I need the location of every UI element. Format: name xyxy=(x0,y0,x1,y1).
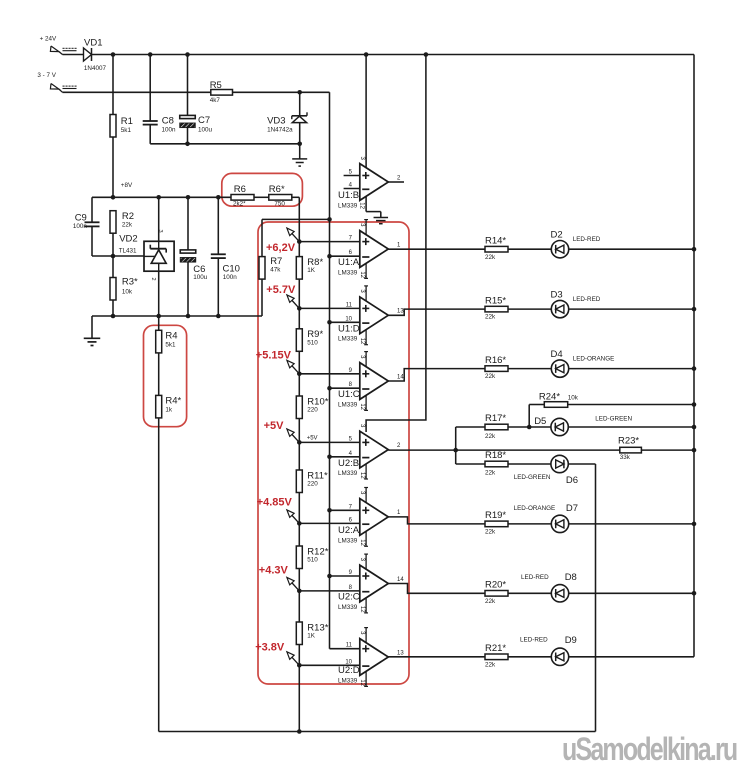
svg-text:+5V: +5V xyxy=(307,436,318,442)
svg-text:LED-RED: LED-RED xyxy=(521,574,549,581)
svg-text:U2:D: U2:D xyxy=(338,665,360,676)
svg-text:+3.8V: +3.8V xyxy=(255,642,285,654)
svg-text:750: 750 xyxy=(274,200,285,207)
svg-text:12: 12 xyxy=(359,606,365,613)
svg-text:13: 13 xyxy=(397,309,404,315)
svg-text:47k: 47k xyxy=(270,266,281,273)
svg-text:LED-ORANGE: LED-ORANGE xyxy=(514,505,556,512)
svg-text:LED-GREEN: LED-GREEN xyxy=(595,415,632,422)
svg-text:510: 510 xyxy=(307,339,318,346)
svg-text:+4.3V: +4.3V xyxy=(259,565,289,577)
svg-text:D3: D3 xyxy=(551,290,563,301)
svg-text:D8: D8 xyxy=(565,572,577,583)
svg-text:1k: 1k xyxy=(165,406,173,413)
svg-text:U1:A: U1:A xyxy=(338,257,360,268)
svg-text:C9: C9 xyxy=(75,212,87,223)
svg-text:VD1: VD1 xyxy=(84,37,102,48)
svg-text:+5.7V: +5.7V xyxy=(266,284,296,296)
svg-text:12: 12 xyxy=(359,403,365,410)
svg-text:22k: 22k xyxy=(485,373,496,380)
svg-text:LM339: LM339 xyxy=(338,677,358,684)
svg-text:D6: D6 xyxy=(566,475,578,486)
svg-text:22k: 22k xyxy=(485,470,496,477)
svg-text:11: 11 xyxy=(346,643,353,649)
svg-text:12: 12 xyxy=(359,202,365,209)
svg-text:1N4007: 1N4007 xyxy=(84,65,107,72)
svg-text:R18*: R18* xyxy=(485,450,506,461)
svg-text:2: 2 xyxy=(150,278,156,281)
svg-text:U1:B: U1:B xyxy=(338,190,359,201)
svg-text:R1: R1 xyxy=(121,116,133,127)
svg-text:100n: 100n xyxy=(73,223,88,230)
svg-text:22k: 22k xyxy=(122,222,133,229)
svg-text:LM339: LM339 xyxy=(338,336,358,343)
svg-text:R5: R5 xyxy=(210,80,222,91)
svg-text:22k: 22k xyxy=(485,314,496,321)
svg-text:12: 12 xyxy=(359,679,365,686)
svg-text:12: 12 xyxy=(359,472,365,479)
svg-text:R19*: R19* xyxy=(485,510,506,521)
svg-text:3 - 7 V: 3 - 7 V xyxy=(37,72,56,79)
svg-text:+6,2V: +6,2V xyxy=(266,242,296,254)
svg-text:R20*: R20* xyxy=(485,580,506,591)
svg-text:LED-ORANGE: LED-ORANGE xyxy=(573,356,615,363)
svg-text:R2: R2 xyxy=(122,211,134,222)
svg-text:11: 11 xyxy=(346,302,353,308)
svg-text:R6*: R6* xyxy=(269,184,285,195)
svg-text:12: 12 xyxy=(359,338,365,345)
svg-text:R3*: R3* xyxy=(122,276,138,287)
svg-text:U2:B: U2:B xyxy=(338,458,359,469)
svg-text:R6: R6 xyxy=(234,184,246,195)
svg-text:U1:C: U1:C xyxy=(338,389,360,400)
svg-text:10k: 10k xyxy=(122,289,133,296)
svg-text:LM339: LM339 xyxy=(338,401,358,408)
svg-text:LM339: LM339 xyxy=(338,604,358,611)
svg-text:22k: 22k xyxy=(485,529,496,536)
svg-text:3: 3 xyxy=(157,230,163,233)
svg-text:D7: D7 xyxy=(566,503,578,514)
svg-text:+4.85V: +4.85V xyxy=(257,496,293,508)
svg-text:220: 220 xyxy=(307,481,318,488)
svg-text:U2:C: U2:C xyxy=(338,592,360,603)
svg-text:14: 14 xyxy=(397,577,404,583)
svg-text:LM339: LM339 xyxy=(338,470,358,477)
svg-text:14: 14 xyxy=(397,374,404,380)
svg-text:5k1: 5k1 xyxy=(121,127,132,134)
svg-text:LM339: LM339 xyxy=(338,537,358,544)
svg-text:+8V: +8V xyxy=(121,182,133,189)
svg-text:LED-RED: LED-RED xyxy=(573,236,601,243)
svg-text:VD2: VD2 xyxy=(119,234,137,245)
svg-text:4k7: 4k7 xyxy=(210,97,221,104)
svg-text:100n: 100n xyxy=(162,126,177,133)
svg-text:D5: D5 xyxy=(534,416,546,427)
svg-text:LM339: LM339 xyxy=(338,269,358,276)
svg-text:uSamodelkina.ru: uSamodelkina.ru xyxy=(562,732,737,768)
svg-text:22k: 22k xyxy=(485,661,496,668)
svg-text:R15*: R15* xyxy=(485,295,506,306)
svg-text:R4: R4 xyxy=(165,331,177,342)
svg-text:510: 510 xyxy=(307,557,318,564)
svg-text:R16*: R16* xyxy=(485,355,506,366)
svg-text:LM339: LM339 xyxy=(338,202,358,209)
svg-text:R21*: R21* xyxy=(485,643,506,654)
svg-text:+5V: +5V xyxy=(264,420,285,432)
svg-text:C8: C8 xyxy=(162,116,174,127)
svg-text:LED-GREEN: LED-GREEN xyxy=(514,474,551,481)
svg-text:LED-RED: LED-RED xyxy=(520,637,548,644)
svg-text:R14*: R14* xyxy=(485,235,506,246)
svg-text:R23*: R23* xyxy=(618,436,639,447)
svg-text:D9: D9 xyxy=(565,635,577,646)
svg-text:1K: 1K xyxy=(307,633,316,640)
svg-text:R4*: R4* xyxy=(165,395,181,406)
svg-text:100u: 100u xyxy=(193,274,208,281)
svg-text:U1:D: U1:D xyxy=(338,324,360,335)
svg-text:10k: 10k xyxy=(568,394,579,401)
svg-text:12: 12 xyxy=(359,539,365,546)
svg-text:1N4742a: 1N4742a xyxy=(267,126,293,133)
svg-text:2k2*: 2k2* xyxy=(233,200,246,207)
svg-text:+5.15V: +5.15V xyxy=(256,349,292,361)
svg-text:100u: 100u xyxy=(198,126,213,133)
svg-text:10: 10 xyxy=(345,316,352,322)
svg-text:5k1: 5k1 xyxy=(165,341,176,348)
svg-text:U2:A: U2:A xyxy=(338,525,360,536)
svg-text:C10: C10 xyxy=(223,264,240,275)
svg-text:R24*: R24* xyxy=(539,391,560,402)
svg-text:22k: 22k xyxy=(485,254,496,261)
svg-text:C7: C7 xyxy=(198,115,210,126)
svg-text:TL431: TL431 xyxy=(119,247,137,254)
svg-text:R17*: R17* xyxy=(485,413,506,424)
svg-text:13: 13 xyxy=(397,650,404,656)
svg-text:VD3: VD3 xyxy=(267,116,285,127)
svg-text:D4: D4 xyxy=(551,349,563,360)
svg-text:100n: 100n xyxy=(223,274,238,281)
svg-text:1K: 1K xyxy=(307,267,316,274)
svg-text:D2: D2 xyxy=(551,230,563,241)
svg-text:220: 220 xyxy=(307,407,318,414)
svg-text:12: 12 xyxy=(359,271,365,278)
svg-text:+ 24V: + 24V xyxy=(40,36,57,43)
svg-text:LED-RED: LED-RED xyxy=(573,296,601,303)
svg-text:22k: 22k xyxy=(485,598,496,605)
svg-text:22k: 22k xyxy=(485,433,496,440)
svg-text:33k: 33k xyxy=(620,454,631,461)
